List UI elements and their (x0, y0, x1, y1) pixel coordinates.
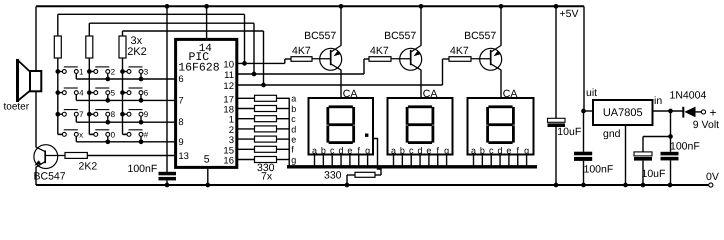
wire PIC pin to R3 base resistor (237, 84, 443, 86)
wire segment bus bar (287, 165, 537, 168)
svg-text:9: 9 (144, 110, 149, 119)
svg-text:in: in (654, 95, 662, 107)
svg-text:BC557: BC557 (304, 30, 336, 42)
wire in junction down to C4 C5 (670, 111, 672, 137)
node junction top rail to Q2 emitter (419, 4, 424, 9)
svg-text:d: d (418, 145, 423, 155)
switch key 6 (120, 90, 125, 95)
svg-text:7: 7 (79, 110, 84, 119)
svg-text:12: 12 (223, 81, 234, 92)
wire dp to R330 (373, 139, 381, 176)
node junction pin5 0V (205, 183, 210, 188)
switch key 7 (55, 112, 60, 117)
switch key 1 (55, 69, 60, 74)
wire keypad column line 1 (57, 58, 59, 134)
svg-text:g: g (365, 145, 370, 155)
node junction scan line 3 (261, 83, 266, 88)
capacitor C5 10uF electrolytic (642, 137, 644, 153)
node junction row 4 col 2 (105, 139, 110, 144)
svg-text:+5V: +5V (560, 8, 579, 20)
svg-text:g: g (444, 145, 449, 155)
node junction C4 0V (668, 183, 673, 188)
speaker toeter (30, 71, 41, 91)
wire +5V rail to speaker top (35, 6, 37, 71)
resistor 330 segment a (237, 97, 255, 99)
svg-text:0V: 0V (706, 171, 719, 183)
wire speaker bottom to Q4 collector (35, 91, 37, 147)
svg-text:gnd: gnd (603, 128, 621, 140)
svg-text:13: 13 (178, 151, 189, 162)
resistor 330 segment g (237, 159, 255, 161)
display DIS2 7-segment (388, 98, 453, 155)
wire +5V rail corner down to regulator uit (583, 6, 585, 111)
svg-text:toeter: toeter (4, 101, 30, 112)
wire 0V bottom rail (36, 184, 708, 186)
node junction row 4 col 3 (139, 139, 144, 144)
node junction C1 to 0V (165, 183, 170, 188)
svg-text:4K7: 4K7 (370, 45, 389, 57)
node junction scan line 1 (242, 61, 247, 66)
wire keypad column 2 to PIC scan line (89, 22, 254, 24)
svg-text:2K2: 2K2 (79, 161, 98, 173)
node junction row 2 col 2 (105, 98, 110, 103)
svg-text:9: 9 (178, 137, 183, 148)
decimal point display 1 (365, 134, 368, 137)
resistor 2K2 pull-up column 2 (86, 36, 93, 58)
svg-text:a: a (312, 145, 317, 155)
wire Q2 emitter to +5V (420, 6, 422, 45)
display DIS3 7-segment (468, 98, 534, 155)
svg-text:5: 5 (111, 89, 116, 98)
svg-text:16: 16 (223, 156, 234, 167)
svg-text:UA7805: UA7805 (603, 107, 643, 119)
wire Q1 collector to display CA (340, 70, 342, 98)
node junction row 2 col 3 (139, 98, 144, 103)
svg-text:4: 4 (79, 89, 84, 98)
node junction scan line 2 (252, 72, 257, 77)
svg-text:100nF: 100nF (584, 164, 614, 176)
node junction top rail to Q1 emitter (339, 4, 344, 9)
wire +5V to pin 14 (206, 6, 208, 39)
transistor Q4 BC547 (34, 145, 58, 169)
node junction row 3 col 2 (105, 120, 110, 125)
svg-text:100nF: 100nF (670, 140, 700, 152)
wire keypad column line 2 (88, 58, 90, 134)
svg-text:uit: uit (586, 87, 597, 99)
svg-text:CA: CA (343, 88, 358, 100)
svg-text:5: 5 (204, 153, 210, 165)
svg-text:d: d (339, 145, 344, 155)
node junction uit (581, 109, 586, 114)
switch key 3 (120, 69, 125, 74)
regulator U2 UA7805 (593, 100, 653, 125)
node junction gnd 0V (623, 183, 628, 188)
capacitor C4 100nF (670, 137, 672, 152)
node junction top rail to PIC pin 14 (204, 4, 209, 9)
resistor 2K2 pull-up column 3 (119, 36, 126, 58)
display DIS1 7-segment (309, 98, 374, 155)
node junction C5 0V (641, 183, 646, 188)
svg-text:d: d (291, 124, 296, 134)
svg-text:BC547: BC547 (34, 171, 66, 183)
wire uit lead (584, 110, 594, 112)
wire Q3 collector to display CA (500, 70, 502, 98)
node junction C2 0V (554, 183, 559, 188)
capacitor C1 100nF (159, 172, 177, 176)
wire keypad row line 2 to PIC (76, 99, 175, 101)
svg-text:b: b (291, 104, 296, 114)
svg-text:6: 6 (144, 89, 149, 98)
svg-text:a: a (291, 94, 296, 104)
svg-text:e: e (291, 135, 296, 145)
svg-text:1: 1 (79, 67, 84, 76)
resistor R5 2K2 base (65, 153, 87, 159)
node junction row 1 col 3 (139, 77, 144, 82)
wire in lead (653, 110, 683, 112)
svg-text:b: b (480, 145, 485, 155)
node junction dp resistor 0V (345, 183, 350, 188)
svg-text:7: 7 (178, 95, 183, 106)
wire pin 5 to 0V rail (207, 167, 209, 185)
transistor Q2 BC557 (391, 58, 411, 60)
svg-text:#: # (144, 130, 149, 139)
svg-text:d: d (498, 145, 503, 155)
node junction C3 0V (581, 183, 586, 188)
wire keypad column line 3 (122, 58, 124, 134)
svg-text:10uF: 10uF (557, 126, 581, 138)
node junction top rail to 100nF decoupling (165, 4, 170, 9)
svg-text:e: e (347, 145, 352, 155)
svg-text:+: + (710, 106, 717, 120)
svg-text:10: 10 (223, 59, 234, 70)
resistor 4K7 base 3 (449, 57, 471, 62)
wire keypad row line 1 to PIC (76, 78, 175, 80)
svg-text:c: c (330, 145, 335, 155)
transistor Q1 BC557 (312, 58, 331, 60)
terminal +9V (701, 110, 705, 114)
wire +5V top rail (36, 5, 584, 7)
svg-text:8: 8 (178, 117, 183, 128)
svg-text:b: b (400, 145, 405, 155)
resistor 330 decimal point (375, 174, 381, 176)
svg-text:330: 330 (324, 169, 342, 181)
svg-text:2K2: 2K2 (127, 46, 147, 58)
svg-text:g: g (524, 145, 529, 155)
capacitor C2 10uF electrolytic (548, 118, 566, 122)
svg-text:9 Volt: 9 Volt (693, 119, 719, 131)
svg-text:8: 8 (111, 110, 116, 119)
switch key 0 (89, 133, 94, 135)
svg-text:b: b (321, 145, 326, 155)
resistor 330 segment c (237, 118, 255, 120)
node junction C4 top (668, 134, 673, 139)
node junction row 1 col 2 (105, 77, 110, 82)
wire +5V down to 10uF C2 (555, 6, 557, 118)
switch key x (58, 133, 63, 135)
svg-text:4K7: 4K7 (450, 45, 469, 57)
wire Q1 emitter to +5V (340, 6, 342, 45)
svg-text:100nF: 100nF (128, 163, 158, 175)
resistor 330 segment f (237, 148, 255, 150)
switch key 9 (120, 112, 125, 117)
node junction in (668, 109, 673, 114)
svg-text:4K7: 4K7 (292, 45, 311, 57)
svg-text:BC557: BC557 (464, 30, 496, 42)
svg-text:2: 2 (111, 67, 116, 76)
wire gnd to 0V (625, 125, 627, 185)
wire keypad column 3 to PIC scan line (123, 30, 264, 32)
resistor 330 segment d (237, 128, 255, 130)
svg-text:0: 0 (111, 130, 116, 139)
svg-text:7x: 7x (261, 171, 273, 183)
node junction top rail to Q3 emitter (499, 4, 504, 9)
resistor 4K7 base 2 (369, 57, 391, 62)
svg-text:10uF: 10uF (642, 168, 666, 180)
resistor 2K2 pull-up column 1 (54, 36, 61, 58)
svg-text:1N4004: 1N4004 (670, 90, 707, 102)
svg-text:c: c (291, 114, 296, 124)
capacitor C3 100nF (574, 152, 592, 156)
wire keypad row line 4 to PIC (76, 141, 175, 143)
wire Q2 collector to display CA (420, 70, 422, 98)
svg-text:e: e (506, 145, 511, 155)
wire Q3 emitter to +5V (500, 6, 502, 45)
wire Q4 emitter to 0V rail (35, 167, 37, 185)
wire +5V rail down to 100nF C1 (166, 6, 168, 172)
svg-text:BC557: BC557 (384, 30, 416, 42)
wire keypad column 1 to PIC scan line (58, 13, 245, 15)
svg-text:3: 3 (144, 67, 149, 76)
svg-text:a: a (471, 145, 476, 155)
terminal 0V (709, 183, 713, 187)
wire R5 to PIC pin 13 (87, 155, 175, 157)
node junction row 3 col 3 (139, 120, 144, 125)
svg-text:e: e (426, 145, 431, 155)
svg-text:CA: CA (423, 88, 438, 100)
wire PIC pin to R2 base resistor (237, 73, 364, 75)
transistor Q3 BC557 (471, 58, 491, 60)
svg-text:a: a (391, 145, 396, 155)
svg-text:6: 6 (178, 74, 183, 85)
svg-text:g: g (291, 155, 296, 165)
switch key 2 (87, 69, 92, 74)
switch key 8 (87, 112, 92, 117)
resistor 330 segment e (237, 138, 255, 140)
svg-text:16F628: 16F628 (178, 62, 220, 75)
wire segment bus vertical (288, 98, 290, 167)
svg-text:11: 11 (224, 70, 234, 81)
svg-text:c: c (409, 145, 414, 155)
resistor 4K7 base 1 (291, 57, 312, 62)
svg-text:CA: CA (503, 88, 518, 100)
svg-text:x: x (79, 130, 83, 139)
switch key 4 (55, 90, 60, 95)
svg-text:c: c (489, 145, 494, 155)
wire PIC pin to R1 base resistor (237, 62, 285, 64)
node junction top rail to 10uF (554, 4, 559, 9)
switch key # (123, 133, 128, 135)
diode D1 1N4004 (682, 107, 684, 118)
IC U1 PIC 16F628 (176, 39, 237, 167)
resistor 330 segment b (237, 108, 255, 110)
wire keypad row line 3 to PIC (76, 121, 175, 123)
switch key 5 (87, 90, 92, 95)
wire uit junction down through C3 (583, 111, 585, 152)
